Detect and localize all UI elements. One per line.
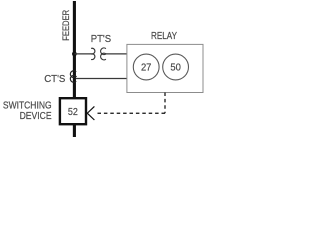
- svg-text:52: 52: [68, 107, 78, 118]
- device 50 (overcurrent relay) circle: [163, 54, 189, 80]
- junction node (PT tap): [72, 52, 77, 57]
- arrowhead into 52: [87, 106, 94, 120]
- svg-text:50: 50: [170, 63, 181, 74]
- switching device box (52): [60, 98, 86, 124]
- control dashed line: horizontal to switching device: [96, 112, 166, 114]
- svg-text:DEVICE: DEVICE: [20, 111, 52, 122]
- svg-text:FEEDER: FEEDER: [61, 9, 71, 40]
- wire: CT secondary to relay: [76, 78, 127, 80]
- device 27 (undervoltage relay) circle: [133, 54, 159, 80]
- relay box: [127, 44, 203, 92]
- control dashed line: relay box down: [164, 93, 166, 114]
- svg-text:RELAY: RELAY: [151, 31, 177, 42]
- CT (current transformer on feeder): [70, 71, 76, 82]
- PT primary winding: [91, 48, 95, 59]
- svg-text:27: 27: [141, 63, 152, 74]
- svg-text:CT'S: CT'S: [44, 74, 66, 85]
- wire: feeder to PT primary: [74, 53, 91, 55]
- svg-text:PT'S: PT'S: [91, 34, 112, 45]
- PT secondary winding: [101, 48, 106, 60]
- wire: PT secondary to relay: [106, 53, 127, 55]
- feeder bus (vertical line): [73, 1, 76, 137]
